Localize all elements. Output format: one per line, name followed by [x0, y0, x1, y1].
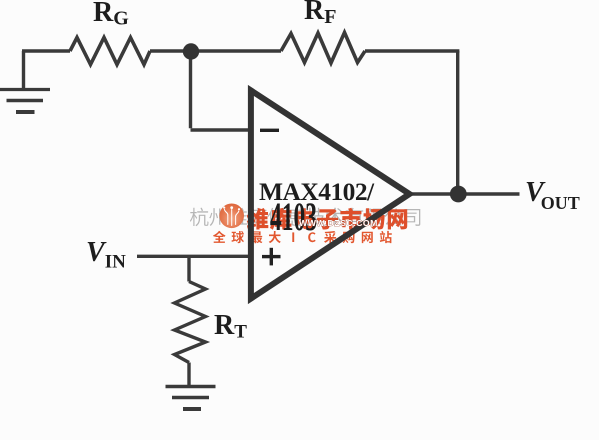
svg-text:WWW.DZSC.COM: WWW.DZSC.COM [299, 218, 378, 228]
